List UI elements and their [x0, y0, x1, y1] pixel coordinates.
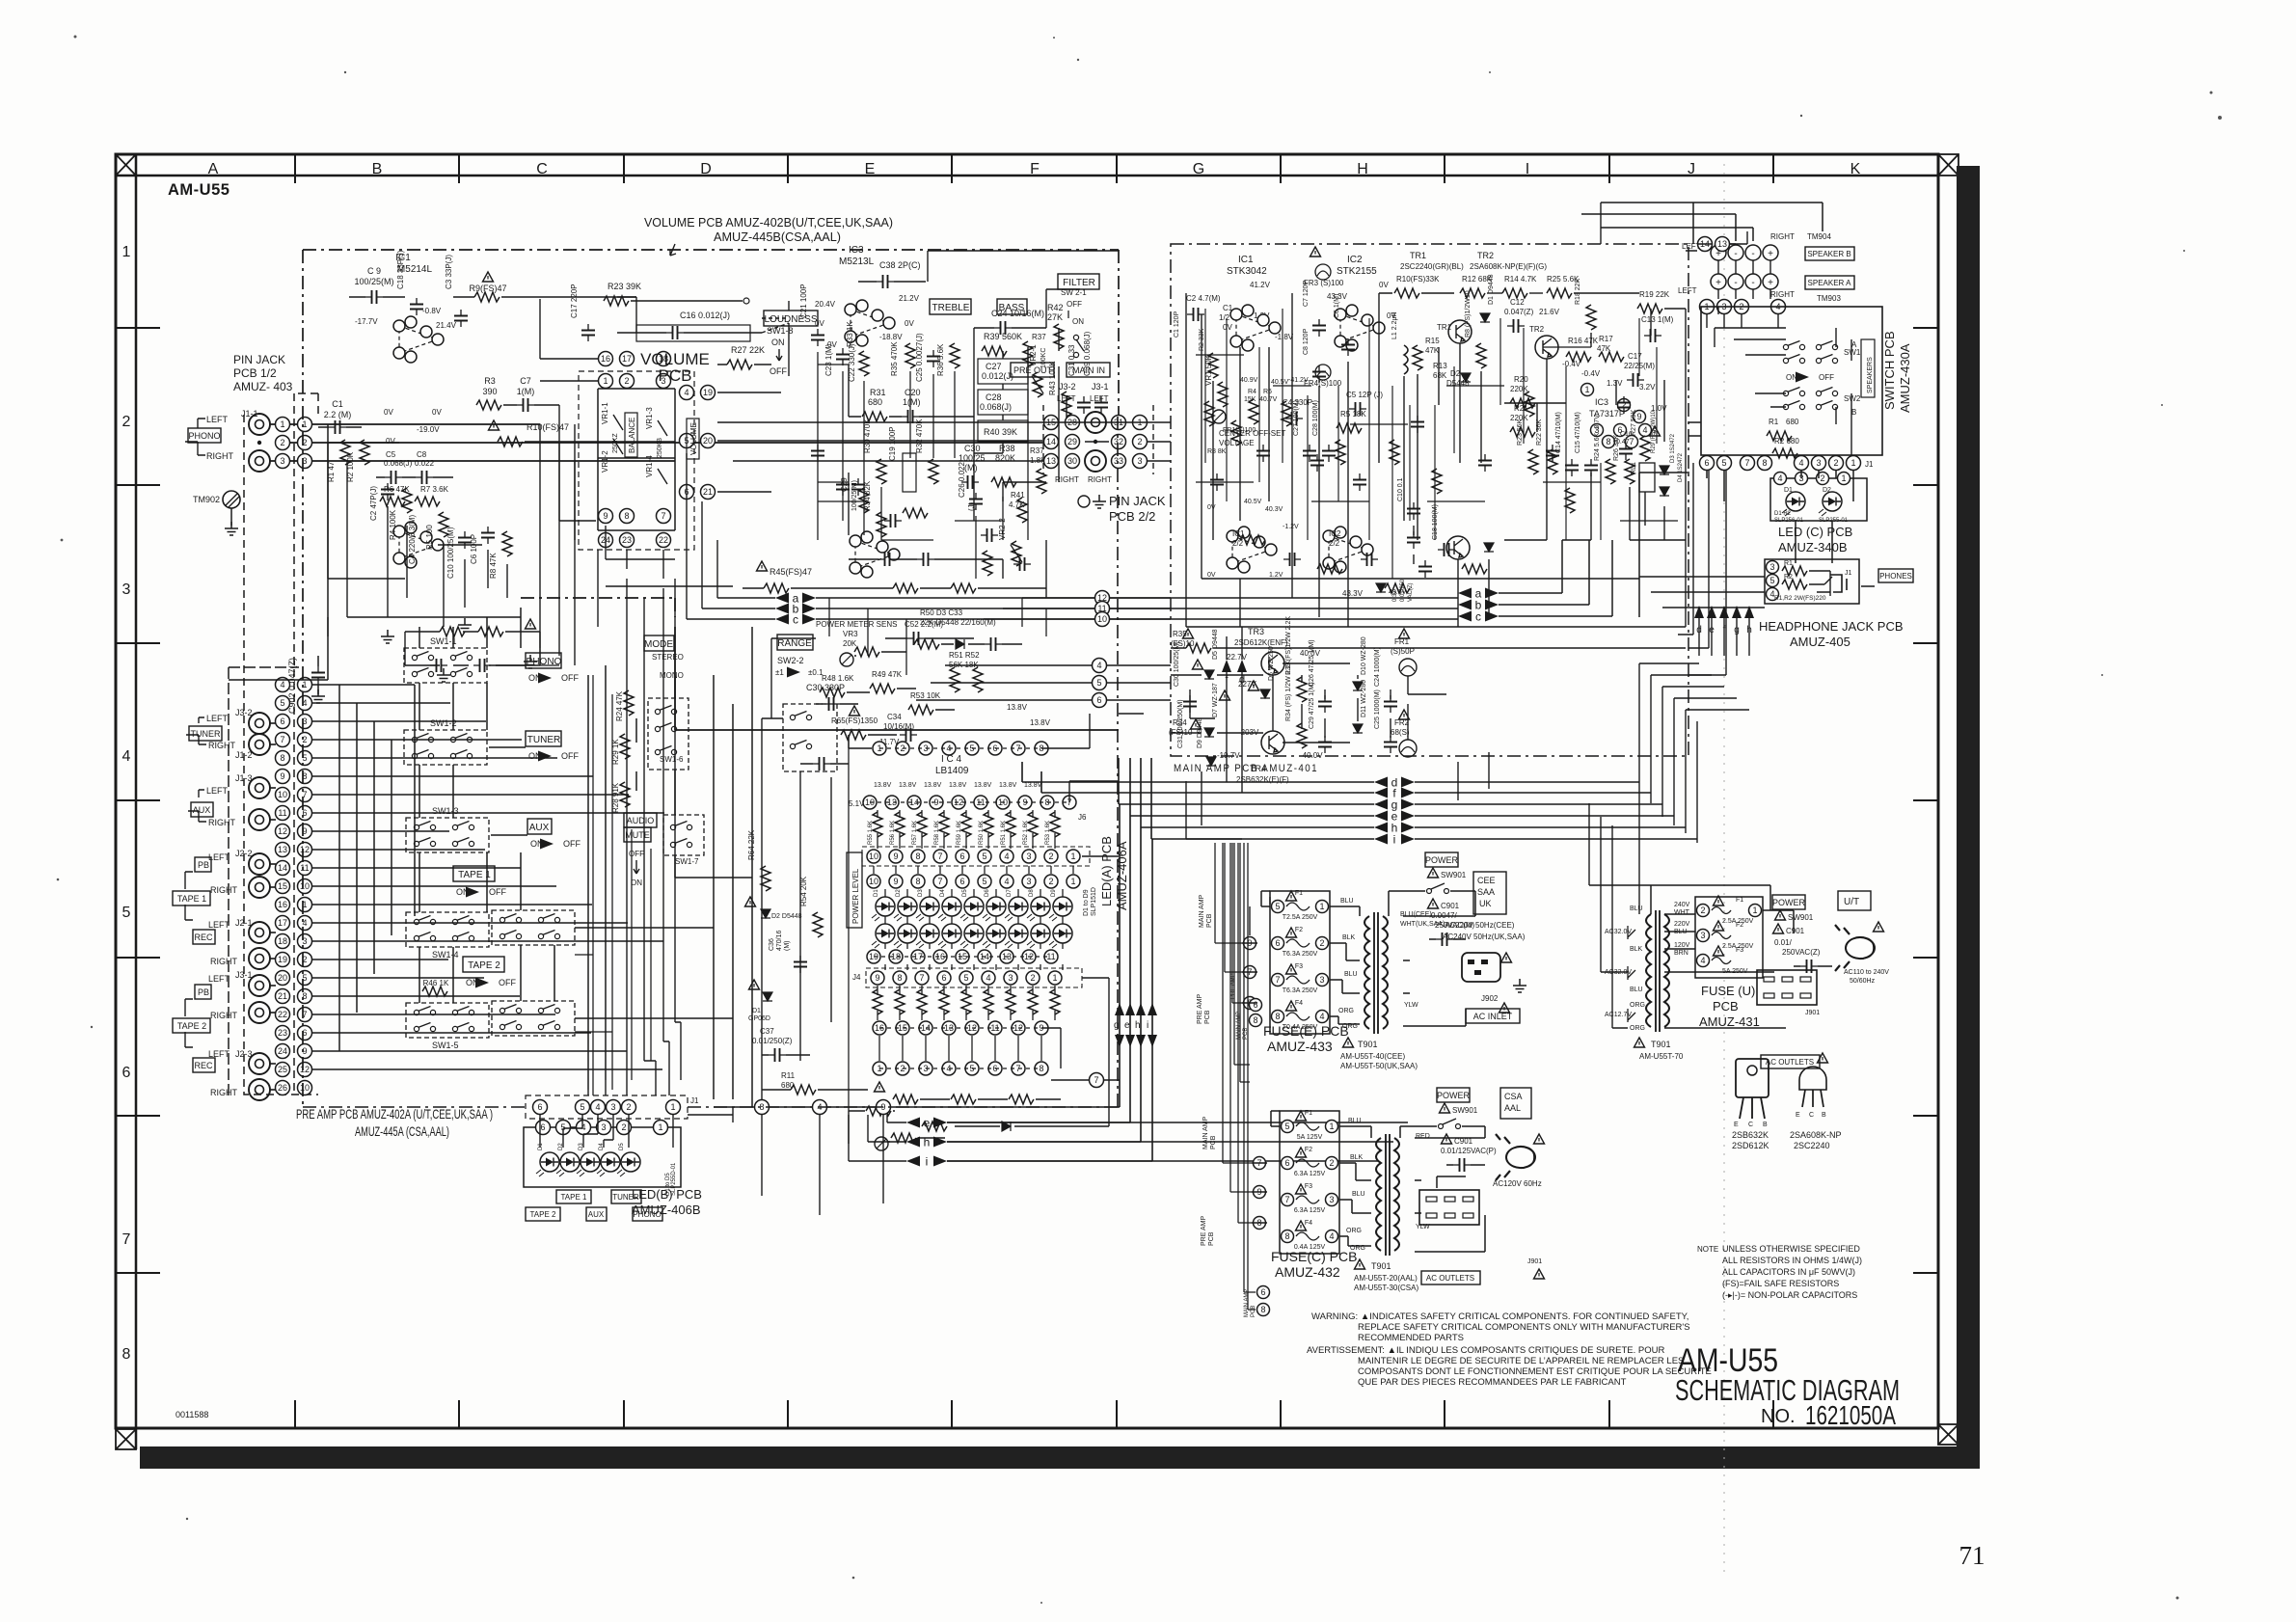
- fuse E lower pins: [1250, 999, 1262, 1012]
- svg-text:17: 17: [622, 354, 632, 364]
- svg-text:SLP255-01: SLP255-01: [1819, 518, 1849, 524]
- svg-text:R8 8K: R8 8K: [1207, 448, 1227, 455]
- svg-text:L1 2.2μH: L1 2.2μH: [1391, 311, 1398, 339]
- svg-text:G: G: [1193, 161, 1204, 177]
- svg-text:ALL RESISTORS IN OHMS 1/4W(J): ALL RESISTORS IN OHMS 1/4W(J): [1722, 1256, 1862, 1265]
- filter label: [1058, 274, 1099, 289]
- svg-text:PCB: PCB: [1210, 1135, 1217, 1149]
- IC1 2/2 cluster: [1232, 536, 1271, 563]
- svg-text:D11 WZ-280: D11 WZ-280: [1361, 680, 1367, 717]
- bus arrow c: [775, 614, 789, 625]
- AC plug CSA: [1496, 1134, 1535, 1180]
- svg-text:7: 7: [1744, 458, 1749, 468]
- svg-text:R1,R2 2W(FS)220: R1,R2 2W(FS)220: [1774, 595, 1826, 602]
- svg-text:NO.: NO.: [1761, 1406, 1796, 1427]
- power meter bus line: [675, 627, 1119, 730]
- svg-text:R8 (FS)1/2W10: R8 (FS)1/2W10: [1465, 290, 1472, 338]
- meter bottom diode: [1002, 1122, 1011, 1131]
- R28 91K resistor: [620, 782, 630, 807]
- R40 39K: [978, 420, 1028, 442]
- svg-text:RIGHT: RIGHT: [210, 957, 238, 966]
- svg-text:C1: C1: [332, 399, 343, 409]
- switch SW1-1 phono: [404, 648, 487, 683]
- svg-text:R46 1K: R46 1K: [423, 979, 449, 987]
- phono pin row: [276, 418, 290, 432]
- svg-text:PHONO: PHONO: [633, 1210, 661, 1219]
- svg-text:13.8V: 13.8V: [974, 782, 992, 789]
- svg-text:D1 R2: D1 R2: [1774, 511, 1792, 517]
- svg-text:ORG: ORG: [1342, 1023, 1358, 1030]
- svg-text:13.8V: 13.8V: [924, 782, 942, 789]
- bus vertical drops left: [687, 453, 717, 619]
- FR3 resistor: [1310, 247, 1321, 257]
- svg-text:PIN JACK: PIN JACK: [233, 353, 285, 366]
- svg-text:D2 D5448: D2 D5448: [771, 913, 802, 920]
- svg-text:8: 8: [1275, 1012, 1280, 1021]
- svg-text:R37: R37: [1030, 446, 1044, 455]
- svg-text:SWITCH PCB: SWITCH PCB: [1882, 331, 1897, 410]
- svg-text:ORG: ORG: [1346, 1228, 1362, 1234]
- svg-text:D6 WZ-250: D6 WZ-250: [1268, 646, 1275, 681]
- svg-text:J3-1: J3-1: [1092, 382, 1109, 392]
- svg-text:16: 16: [278, 900, 287, 909]
- bus f line: [1374, 788, 1388, 798]
- svg-text:AMUZ-431: AMUZ-431: [1699, 1014, 1760, 1029]
- svg-text:5A 125V: 5A 125V: [1297, 1134, 1323, 1141]
- svg-text:R42: R42: [1047, 303, 1064, 312]
- fuse U pcb box: [1695, 897, 1763, 978]
- bus d line: [1374, 777, 1388, 788]
- svg-text:SW 2-1: SW 2-1: [1061, 288, 1087, 297]
- svg-text:2SA608K-NP: 2SA608K-NP: [1790, 1130, 1842, 1140]
- svg-text:C 9: C 9: [367, 266, 381, 276]
- LED B pin row: [536, 1121, 551, 1135]
- svg-text:-: -: [1751, 278, 1754, 288]
- svg-text:3: 3: [1008, 973, 1013, 983]
- svg-text:4: 4: [581, 1122, 585, 1132]
- svg-text:14: 14: [1046, 437, 1056, 446]
- bus h line: [1374, 823, 1388, 833]
- svg-text:NOTE: NOTE: [1697, 1245, 1718, 1254]
- svg-text:5: 5: [122, 905, 131, 921]
- svg-text:R50 D3 C33: R50 D3 C33: [920, 608, 963, 617]
- svg-text:B: B: [372, 161, 383, 177]
- svg-text:6: 6: [959, 852, 964, 861]
- svg-text:1.3V: 1.3V: [1607, 379, 1623, 388]
- svg-text:C: C: [1748, 1122, 1753, 1128]
- svg-text:F1: F1: [1295, 890, 1303, 897]
- svg-text:LEFT: LEFT: [208, 852, 230, 862]
- IC1 upper cluster: [399, 326, 438, 353]
- mid vertical risers: [540, 424, 675, 1095]
- svg-text:-19.0V: -19.0V: [417, 425, 440, 434]
- svg-text:STK3042: STK3042: [1227, 266, 1267, 277]
- fuse C bus connectors: [1223, 843, 1256, 1310]
- svg-text:R38: R38: [999, 444, 1015, 453]
- svg-text:6: 6: [537, 1102, 542, 1112]
- svg-text:1: 1: [1329, 1122, 1334, 1131]
- svg-text:9: 9: [1636, 412, 1641, 421]
- svg-text:3: 3: [1769, 562, 1774, 572]
- volume block outline: [598, 389, 675, 530]
- svg-text:TR1: TR1: [1410, 251, 1426, 260]
- POWER switch CEE: [1425, 852, 1458, 867]
- svg-text:680: 680: [1786, 418, 1799, 426]
- svg-text:SAA: SAA: [1477, 887, 1495, 897]
- svg-text:OFF: OFF: [499, 978, 516, 987]
- svg-text:68K: 68K: [1433, 371, 1447, 380]
- svg-text:c: c: [1475, 610, 1481, 624]
- SPEAKERS vertical label: [1861, 339, 1875, 397]
- fuse U wires: [1651, 885, 1794, 1028]
- switch SW1-7: [663, 815, 704, 855]
- svg-text:TR3: TR3: [1248, 627, 1264, 636]
- transformer T901 UT: [1646, 914, 1651, 1027]
- svg-text:C5: C5: [386, 450, 396, 459]
- svg-text:1: 1: [1052, 973, 1057, 983]
- svg-text:J2-3: J2-3: [235, 1049, 253, 1059]
- switch PCB SW1 contacts: [1783, 341, 1804, 350]
- svg-text:-0.8V: -0.8V: [422, 307, 442, 315]
- svg-text:R50 1.6K: R50 1.6K: [979, 821, 985, 845]
- IC4 pin row top: [873, 742, 886, 755]
- svg-text:C4 220/6.3(M): C4 220/6.3(M): [408, 515, 417, 564]
- svg-text:0V: 0V: [384, 408, 393, 417]
- svg-text:1: 1: [122, 244, 131, 260]
- svg-text:17: 17: [278, 918, 287, 928]
- svg-text:6: 6: [941, 973, 946, 983]
- svg-text:h: h: [1135, 1020, 1141, 1031]
- TR3 transistor: [1261, 652, 1284, 675]
- svg-text:C10 100/25(M): C10 100/25(M): [446, 527, 455, 579]
- switch SW1-3 aux: [406, 818, 489, 852]
- svg-text:3: 3: [601, 1122, 606, 1132]
- bottom circled bus pins: [755, 1100, 770, 1115]
- svg-text:SPEAKER B: SPEAKER B: [1807, 250, 1850, 258]
- svg-text:BLU: BLU: [1352, 1191, 1365, 1198]
- switch outputs to preamp bus: [489, 627, 752, 1107]
- svg-text:RIGHT: RIGHT: [208, 741, 236, 750]
- svg-text:TUNER: TUNER: [527, 735, 560, 745]
- svg-text:IC2: IC2: [1347, 255, 1363, 265]
- AC outlets block UT: [1757, 970, 1817, 1005]
- svg-text:10: 10: [300, 881, 310, 891]
- svg-text:C17: C17: [1628, 352, 1642, 361]
- svg-text:26: 26: [278, 1083, 287, 1093]
- svg-text:C10 0.1: C10 0.1: [1397, 477, 1404, 501]
- svg-text:R34 (FS) 1/2W 2.2K: R34 (FS) 1/2W 2.2K: [1285, 661, 1292, 721]
- svg-text:14: 14: [278, 863, 287, 873]
- svg-text:AC120V 60Hz: AC120V 60Hz: [1493, 1179, 1542, 1188]
- svg-text:I: I: [1526, 161, 1529, 177]
- svg-text:OFF: OFF: [1067, 300, 1082, 309]
- bus arrows right abc: [1458, 588, 1472, 599]
- svg-text:0.47: 0.47: [1616, 439, 1630, 446]
- pin jack 2/2 pin matrix: [1044, 416, 1059, 430]
- svg-text:C6 1(M): C6 1(M): [1334, 294, 1340, 318]
- svg-text:SW1: SW1: [1844, 348, 1861, 357]
- LED row upper pins: [867, 875, 880, 888]
- svg-text:D5: D5: [619, 1143, 625, 1150]
- svg-text:1(M): 1(M): [903, 397, 921, 407]
- svg-text:I C 4: I C 4: [941, 754, 962, 765]
- svg-text:2: 2: [1820, 473, 1824, 483]
- switch matrix wiring: [419, 608, 675, 1090]
- svg-text:-: -: [1734, 278, 1737, 288]
- SPEAKER A label: [1805, 276, 1854, 289]
- main amp extra components: [1204, 401, 1214, 426]
- svg-text:9: 9: [603, 511, 608, 521]
- svg-text:J: J: [1688, 161, 1695, 177]
- svg-text:20K: 20K: [843, 639, 857, 648]
- frame ruler band lines: [116, 175, 1938, 177]
- MODE switch label: [644, 635, 674, 651]
- meter bottom pin row: [873, 1062, 886, 1075]
- svg-text:RIGHT: RIGHT: [210, 1011, 238, 1020]
- svg-text:AM-U55: AM-U55: [168, 181, 230, 199]
- svg-text:A: A: [1851, 340, 1857, 349]
- svg-text:RECOMMENDED PARTS: RECOMMENDED PARTS: [1358, 1333, 1464, 1343]
- svg-text:PCB: PCB: [1713, 999, 1739, 1014]
- right scan bar: [1957, 166, 1980, 1468]
- svg-text:MODE: MODE: [644, 639, 673, 650]
- svg-text:C28: C28: [986, 392, 1002, 402]
- svg-text:VR1-4: VR1-4: [645, 455, 654, 477]
- svg-text:e: e: [924, 1117, 931, 1130]
- svg-text:13: 13: [1046, 456, 1056, 466]
- svg-text:220K: 220K: [1510, 385, 1528, 393]
- svg-text:D1: D1: [874, 889, 879, 897]
- svg-text:C12: C12: [1510, 298, 1525, 307]
- svg-text:7: 7: [1094, 1075, 1098, 1085]
- svg-text:R54 20K: R54 20K: [799, 876, 808, 906]
- meter right connections: [1041, 714, 1144, 1126]
- main amp mid rail wires: [1043, 422, 1171, 461]
- svg-text:13: 13: [278, 845, 287, 854]
- svg-text:PCB: PCB: [659, 366, 692, 385]
- svg-text:4: 4: [1319, 1012, 1324, 1021]
- fuse C to trafo wires: [1252, 1111, 1371, 1246]
- IC1 lower network wires: [328, 443, 521, 636]
- TAPE1 switch label: [453, 866, 495, 881]
- svg-text:7: 7: [1275, 975, 1280, 985]
- svg-text:C28 100(M): C28 100(M): [1312, 400, 1319, 436]
- C27 cap: [978, 359, 1028, 384]
- svg-text:ON: ON: [771, 338, 785, 347]
- svg-text:J1: J1: [1865, 460, 1874, 469]
- svg-text:C27: C27: [986, 362, 1002, 371]
- LED C pcb box: [1770, 478, 1867, 521]
- svg-text:J901: J901: [1805, 1010, 1820, 1016]
- f d up arrows: [1222, 660, 1231, 672]
- svg-text:30: 30: [1067, 456, 1077, 466]
- svg-text:2: 2: [280, 438, 284, 447]
- svg-text:13.8V: 13.8V: [999, 782, 1017, 789]
- switch pcb bottom pin row: [1700, 456, 1715, 471]
- svg-text:3: 3: [1700, 931, 1705, 940]
- svg-text:PRE AMP PCB AMUZ-402A (U/T,: PRE AMP PCB AMUZ-402A (U/T,CEE,UK,SAA ): [296, 1106, 493, 1122]
- svg-text:MAIN AMP: MAIN AMP: [1236, 1012, 1242, 1040]
- svg-text:71: 71: [1959, 1541, 1985, 1570]
- svg-text:6: 6: [280, 716, 284, 726]
- svg-text:20: 20: [703, 436, 713, 446]
- tone lower mesh: [829, 598, 1046, 675]
- svg-text:C1 120P: C1 120P: [1174, 311, 1180, 338]
- svg-text:U/T: U/T: [1844, 897, 1859, 907]
- svg-text:R32 470K: R32 470K: [915, 419, 924, 453]
- svg-text:TR4: TR4: [1250, 764, 1266, 773]
- svg-text:i: i: [1147, 1020, 1148, 1031]
- svg-text:J902: J902: [1481, 994, 1499, 1003]
- svg-text:RIGHT: RIGHT: [210, 885, 238, 895]
- svg-text:TAPE 2: TAPE 2: [468, 960, 500, 971]
- svg-text:i: i: [926, 1155, 929, 1169]
- preamp left dashed boundary: [302, 250, 304, 1107]
- svg-text:PCB: PCB: [1208, 1231, 1215, 1246]
- IC3 lower cluster: [855, 541, 894, 568]
- BALANCE VOLUME pot labels: [625, 413, 637, 457]
- svg-text:6: 6: [1284, 1158, 1289, 1168]
- svg-text:2: 2: [1048, 877, 1053, 886]
- svg-text:1: 1: [1319, 902, 1324, 911]
- svg-text:TAPE 2: TAPE 2: [177, 1021, 206, 1031]
- meter bottom resistors: [893, 1095, 918, 1104]
- headphone feed wires: [1639, 577, 1765, 608]
- svg-text:2SC2240(GR)(BL): 2SC2240(GR)(BL): [1400, 262, 1464, 271]
- svg-text:R35 470K: R35 470K: [890, 341, 899, 376]
- svg-text:68(S): 68(S): [1391, 728, 1410, 737]
- svg-text:AUDIO: AUDIO: [627, 816, 655, 825]
- headphone pins: [1767, 561, 1779, 574]
- svg-text:6: 6: [1260, 1287, 1265, 1297]
- AC OUTLETS label CSA: [1421, 1271, 1480, 1284]
- svg-text:0.068(J): 0.068(J): [384, 459, 413, 468]
- svg-text:R24 47K: R24 47K: [615, 690, 624, 721]
- svg-text:3: 3: [1026, 852, 1031, 861]
- svg-text:RANGE: RANGE: [777, 638, 812, 649]
- svg-text:C25 0.0027(J): C25 0.0027(J): [915, 333, 924, 382]
- LED B pcb box: [524, 1127, 681, 1187]
- svg-text:WHT: WHT: [1674, 909, 1690, 916]
- svg-text:BALANCE: BALANCE: [628, 418, 636, 453]
- svg-text:GP06D: GP06D: [748, 1015, 770, 1022]
- svg-text:C24 1000(M): C24 1000(M): [1374, 647, 1381, 687]
- svg-text:BLK: BLK: [1342, 934, 1356, 941]
- svg-text:TUNER: TUNER: [191, 729, 221, 739]
- svg-text:c: c: [793, 613, 798, 627]
- svg-text:18: 18: [278, 936, 287, 946]
- svg-text:8: 8: [1762, 458, 1767, 468]
- svg-text:J2-1: J2-1: [235, 918, 253, 928]
- svg-text:LEFT: LEFT: [1057, 394, 1076, 403]
- svg-text:AMUZ-445A (CSA,AAL): AMUZ-445A (CSA,AAL): [355, 1123, 449, 1139]
- svg-text:R53 10K: R53 10K: [910, 691, 941, 700]
- svg-text:SW901: SW901: [1441, 871, 1467, 879]
- wire phono to preamp: [270, 424, 298, 461]
- svg-text:SW1-7: SW1-7: [675, 857, 699, 866]
- svg-text:40.5V: 40.5V: [1271, 379, 1289, 386]
- svg-text:0V: 0V: [815, 319, 824, 328]
- svg-text:-40.0V: -40.0V: [1300, 751, 1323, 760]
- volume PCB dashed outline: [303, 250, 1119, 617]
- svg-text:R11: R11: [781, 1071, 796, 1080]
- svg-text:3: 3: [1137, 456, 1142, 466]
- svg-text:R33 1K: R33 1K: [846, 321, 854, 347]
- svg-text:R2 680: R2 680: [1774, 437, 1799, 446]
- svg-text:3: 3: [122, 581, 131, 598]
- svg-text:STEREO: STEREO: [652, 653, 684, 662]
- svg-text:250KB: 250KB: [657, 438, 663, 458]
- svg-text:8: 8: [915, 877, 920, 886]
- TUNER switch label: [526, 731, 561, 746]
- D3 D4 diodes: [1660, 466, 1669, 474]
- svg-text:LB1409: LB1409: [935, 766, 969, 776]
- svg-text:C23 1(M): C23 1(M): [824, 343, 833, 376]
- C28 cap: [978, 390, 1028, 415]
- svg-text:R10(FS)33K: R10(FS)33K: [1396, 275, 1440, 284]
- svg-text:COMPOSANTS DONT LE FONCTIONNEM: COMPOSANTS DONT LE FONCTIONNEMENT EST CR…: [1358, 1366, 1712, 1377]
- svg-text:TREBLE: TREBLE: [932, 303, 970, 313]
- LOUDNESS label: [764, 311, 818, 326]
- svg-text:+: +: [1768, 278, 1773, 288]
- svg-text:VR1-1: VR1-1: [601, 402, 609, 424]
- svg-text:2/2: 2/2: [1329, 539, 1340, 548]
- svg-text:6: 6: [1704, 458, 1709, 468]
- svg-text:PRE AMP: PRE AMP: [1201, 1216, 1207, 1246]
- LED row D lower: [872, 924, 895, 948]
- svg-text:33: 33: [1114, 456, 1123, 466]
- bus vertical g down: [1051, 804, 1120, 1107]
- svg-text:9: 9: [893, 852, 898, 861]
- svg-text:1: 1: [1070, 852, 1075, 861]
- transistor package TO-126: [1736, 1059, 1769, 1097]
- svg-text:2: 2: [624, 376, 629, 386]
- svg-text:41.2V: 41.2V: [1250, 281, 1271, 289]
- range switch dashed box: [783, 704, 837, 771]
- svg-text:ORG: ORG: [1630, 1002, 1645, 1009]
- headphone jack pcb box: [1765, 559, 1859, 604]
- svg-text:TAPE 1: TAPE 1: [561, 1193, 588, 1202]
- svg-text:F3: F3: [1295, 963, 1303, 970]
- svg-text:11: 11: [300, 863, 309, 873]
- D11 zener: [1353, 724, 1363, 733]
- svg-text:SW1-5: SW1-5: [432, 1041, 459, 1050]
- svg-text:VOLUME PCB AMUZ-402B(U/T,CEE: VOLUME PCB AMUZ-402B(U/T,CEE,UK,SAA): [644, 216, 893, 230]
- svg-text:0V: 0V: [1207, 572, 1216, 579]
- svg-text:7: 7: [1629, 437, 1634, 446]
- svg-text:POWER: POWER: [1425, 855, 1459, 865]
- svg-text:BLU: BLU: [1344, 971, 1358, 978]
- svg-text:LEFT: LEFT: [206, 786, 229, 796]
- svg-text:J1-2: J1-2: [235, 750, 253, 760]
- svg-text:AVERTISSEMENT: ▲IL INDIQU LES: AVERTISSEMENT: ▲IL INDIQU LES COMPOSANTS…: [1307, 1345, 1664, 1356]
- SPEAKER B label: [1805, 247, 1854, 260]
- svg-text:BLK: BLK: [1630, 946, 1643, 953]
- svg-text:2SB632K: 2SB632K: [1732, 1130, 1769, 1140]
- svg-text:AMUZ-340B: AMUZ-340B: [1778, 540, 1848, 554]
- svg-text:680: 680: [868, 397, 882, 407]
- svg-text:E: E: [1734, 1122, 1739, 1128]
- svg-text:6.3A 125V: 6.3A 125V: [1294, 1207, 1326, 1214]
- svg-text:5.1V: 5.1V: [849, 799, 865, 808]
- svg-text:C15 47/10(M): C15 47/10(M): [1575, 412, 1581, 453]
- LED B diodes: [536, 1152, 559, 1176]
- svg-text:VR1-2: VR1-2: [601, 450, 609, 473]
- svg-text:REC: REC: [194, 1061, 213, 1070]
- svg-text:E: E: [1796, 1112, 1800, 1119]
- svg-text:-0.4V: -0.4V: [1562, 360, 1581, 368]
- tone lower caps: [878, 553, 896, 566]
